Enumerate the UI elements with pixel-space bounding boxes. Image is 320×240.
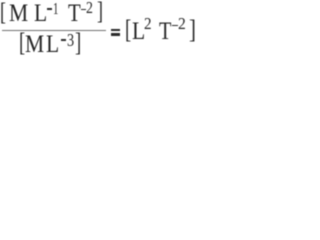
numerator T (time dimension) [68, 2, 81, 27]
numerator exponent digit 1 [53, 0, 58, 17]
numerator right bracket [97, 0, 103, 24]
denominator L [46, 33, 59, 58]
fraction bar [2, 30, 106, 32]
denominator left bracket [19, 30, 25, 56]
denominator M [25, 33, 44, 58]
result exponent digit 2 [178, 15, 186, 32]
numerator left bracket [0, 0, 6, 25]
result left bracket [125, 17, 131, 43]
equals sign top bar [111, 29, 121, 31]
result exponent digit 2 of L^2 [144, 16, 152, 33]
numerator exponent minus sign of T^-2 [81, 9, 86, 11]
numerator L (length dimension) [34, 2, 47, 27]
denominator right bracket [75, 30, 81, 56]
result L [132, 20, 145, 45]
result right bracket [189, 17, 196, 43]
result exponent minus sign of T^-2 [172, 25, 177, 27]
result T [159, 20, 171, 45]
numerator exponent minus sign of L^-1 [47, 8, 53, 10]
equals sign bottom bar [111, 33, 121, 35]
denominator exponent digit 3 [67, 31, 74, 49]
numerator exponent digit 2 [86, 0, 93, 17]
numerator M (mass dimension) [9, 2, 28, 27]
denominator exponent minus sign of L^-3 [61, 39, 67, 41]
